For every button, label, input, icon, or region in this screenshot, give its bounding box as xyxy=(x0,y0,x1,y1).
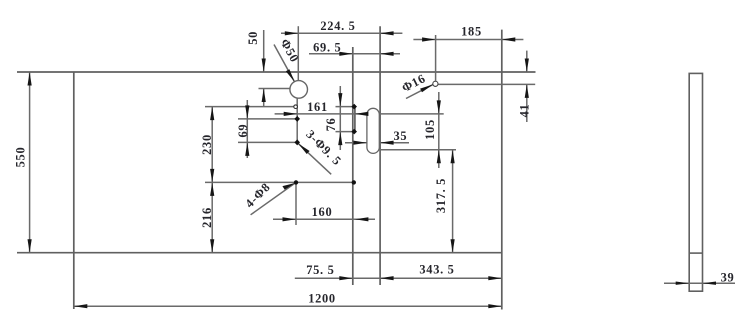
arrow 550 bottom xyxy=(28,239,32,253)
diamond hole D1 xyxy=(351,104,357,110)
arrow phi16 leader xyxy=(420,84,433,92)
arrow 185 left xyxy=(422,37,436,41)
4-phi8 leader line xyxy=(251,183,296,215)
arrow 161 right xyxy=(355,112,369,116)
side view xyxy=(689,73,702,291)
dim 317.5 line x=452.6 xyxy=(452,150,454,253)
phi16 extension line from 185 dim xyxy=(435,35,437,81)
svg-text:105: 105 xyxy=(423,119,437,140)
phi16 line to right xyxy=(438,83,535,85)
slot (obround) xyxy=(367,108,379,153)
phi8 hole dot left xyxy=(294,180,298,184)
front view left edge (extended down for 1200 dim) xyxy=(73,72,75,309)
dim 50 line upper xyxy=(263,30,265,72)
arrow 185 right xyxy=(502,37,516,41)
front view right edge (extended up for 185, down for 1200) xyxy=(501,30,503,310)
arrow 50 bottom xyxy=(262,89,266,103)
dim 69 line x=247.3 xyxy=(246,100,248,158)
svg-text:41: 41 xyxy=(517,104,531,118)
dim 160 left extension x=296 xyxy=(295,182,297,225)
arrow 1200 left xyxy=(74,304,88,308)
front view top edge xyxy=(17,71,536,73)
datum vertical line xyxy=(379,26,381,285)
dim 105 line x=438.8 xyxy=(438,92,440,168)
dim 1200 line xyxy=(74,305,502,307)
svg-text:185: 185 xyxy=(461,25,482,39)
line y=106.6 to small circle A xyxy=(205,106,294,108)
dim 230/216 line x=212.2 xyxy=(211,107,213,253)
arrow 343.5 right xyxy=(488,276,502,280)
phi50 extension line from 224.5 dim xyxy=(297,26,299,80)
arrow phi50 leader xyxy=(286,69,295,82)
stub y=106.6 right xyxy=(336,106,355,108)
dim 35 line y=142.7 xyxy=(345,142,409,144)
3-phi9.5 leader line xyxy=(298,143,332,175)
side view divider line xyxy=(689,252,702,254)
phi50 leader line xyxy=(274,45,299,90)
arrow 105 top xyxy=(437,100,441,114)
arrow 224.5 right xyxy=(380,31,394,35)
svg-text:39: 39 xyxy=(721,270,735,284)
arrow 41 bottom xyxy=(525,84,529,98)
svg-text:50: 50 xyxy=(246,31,260,45)
phi16 leader line xyxy=(406,84,433,98)
svg-text:160: 160 xyxy=(312,205,333,219)
arrow 1200 right xyxy=(488,304,502,308)
dim 39 line xyxy=(664,282,735,284)
svg-text:317. 5: 317. 5 xyxy=(434,178,448,213)
svg-text:224. 5: 224. 5 xyxy=(320,19,355,33)
dim 160 line y=219.3 xyxy=(273,218,375,220)
stub y=131.6 right xyxy=(336,131,355,133)
small circle hole A xyxy=(294,105,298,109)
dim 75.5 / 343.5 line xyxy=(295,277,502,279)
arrow 3-phi9.5 leader xyxy=(298,144,309,155)
arrow 76 bottom xyxy=(338,132,342,146)
phi50 circle xyxy=(290,81,308,99)
arrow 161 left xyxy=(284,112,298,116)
arrow 230 top xyxy=(210,107,214,121)
arrow 69.5 left xyxy=(339,52,353,56)
dim 185 line xyxy=(413,39,523,41)
arrow 76 top xyxy=(338,93,342,107)
arrow 50 top xyxy=(262,59,266,73)
arrow 39 right xyxy=(703,282,717,285)
dim 161 line / 105 top extension y=113.9 xyxy=(275,113,444,115)
arrow 39 left xyxy=(676,282,690,285)
arrow 230 bottom xyxy=(210,169,214,183)
line y=142.4 to diamond C xyxy=(238,141,297,143)
svg-text:550: 550 xyxy=(14,147,28,168)
dim 69.5 line xyxy=(309,53,400,55)
arrow 69 bottom xyxy=(245,142,249,156)
dim 224.5 line xyxy=(281,32,402,34)
dim 50 line lower xyxy=(263,89,265,107)
dim 41 line upper xyxy=(526,51,528,72)
phi8 holes line y=182.4 xyxy=(205,181,354,183)
extension line y=149.8 xyxy=(371,149,456,151)
short hole column x=354.9 xyxy=(354,107,356,132)
svg-text:75. 5: 75. 5 xyxy=(306,263,334,277)
svg-text:69. 5: 69. 5 xyxy=(313,40,341,54)
svg-text:69: 69 xyxy=(236,124,250,138)
arrow 69.5 right xyxy=(380,52,394,56)
arrow 160 right xyxy=(355,217,369,221)
front view bottom edge xyxy=(17,252,502,254)
arrow 4-phi8 leader xyxy=(282,183,295,190)
long extension line x=352.8 xyxy=(352,47,354,285)
dim 76 line x=340.3 xyxy=(339,86,341,150)
arrow 550 top xyxy=(28,72,32,86)
stub line at circle center level y=88.5 xyxy=(259,88,290,90)
arrow 69 top xyxy=(245,105,249,119)
phi8 hole dot right xyxy=(352,180,356,184)
line y=118.9 to diamond B xyxy=(238,118,297,120)
svg-text:1200: 1200 xyxy=(308,292,336,306)
diamond hole C xyxy=(294,139,300,145)
hole column line below phi50 circle xyxy=(296,98,298,142)
arrow 216 bottom xyxy=(210,239,214,253)
arrow 41 top xyxy=(525,59,529,73)
arrow 35 left xyxy=(353,141,367,145)
arrow 343.5/75.5 shared at datum xyxy=(380,276,394,280)
arrow 75.5 left xyxy=(339,276,353,280)
dim 550 line xyxy=(29,72,31,253)
arrow 317.5 top xyxy=(451,150,455,164)
svg-text:35: 35 xyxy=(394,129,408,143)
dim 41 line lower xyxy=(526,84,528,122)
svg-text:161: 161 xyxy=(307,100,328,114)
diamond hole D2 xyxy=(351,129,357,135)
arrow 317.5 bottom xyxy=(451,239,455,253)
diamond hole B xyxy=(294,116,300,122)
arrow 216 top xyxy=(210,182,214,196)
svg-text:216: 216 xyxy=(200,207,214,228)
arrow 35 right xyxy=(380,141,394,145)
arrow 224.5 left xyxy=(285,31,299,35)
phi16 circle xyxy=(433,81,438,86)
arrow 105 bottom xyxy=(437,150,441,164)
svg-text:343. 5: 343. 5 xyxy=(419,263,454,277)
arrow 160 left xyxy=(283,217,297,221)
svg-text:76: 76 xyxy=(324,118,338,132)
side view outline xyxy=(689,73,702,291)
svg-text:230: 230 xyxy=(200,134,214,155)
